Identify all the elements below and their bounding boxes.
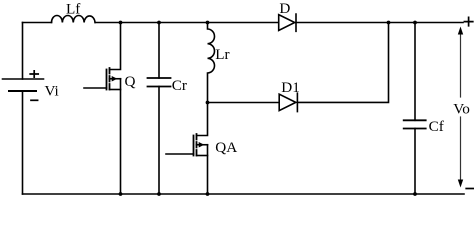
node bottom Cf <box>413 192 417 196</box>
node top C (Lr tap) <box>206 21 210 25</box>
battery minus sign <box>31 99 38 101</box>
output minus sign <box>466 188 473 190</box>
diode D <box>279 14 296 31</box>
node top B (Cr tap) <box>157 21 161 25</box>
transistor QA <box>166 103 208 195</box>
Vo arrow lower head <box>458 180 463 188</box>
wire top-left segment <box>23 22 52 24</box>
wire top middle (Lf to diode D) <box>95 22 278 24</box>
node top A (Q drain tap) <box>119 21 123 25</box>
inductor Lr <box>208 23 215 103</box>
svg-text:Vi: Vi <box>45 83 59 100</box>
Vo arrow upper head <box>458 27 463 35</box>
wire left (top wire down to battery) <box>22 23 24 80</box>
node top D1-return tap <box>387 21 391 25</box>
node bottom Q source <box>119 192 123 196</box>
wire top right (D to right end) <box>296 22 463 24</box>
Vo arrow upper shaft <box>460 33 462 97</box>
svg-text:Lr: Lr <box>215 46 229 63</box>
svg-text:Cf: Cf <box>429 118 445 135</box>
transistor Q <box>84 23 121 195</box>
wire D1 anode <box>208 102 280 104</box>
Vo arrow lower shaft <box>460 117 462 180</box>
wire bottom rail <box>23 193 465 195</box>
capacitor Cf <box>404 23 426 195</box>
wire D1 cathode to top rail <box>297 23 388 103</box>
node Lr-D1-QA junction <box>206 101 210 105</box>
battery plus sign <box>30 71 38 77</box>
output plus sign <box>464 17 472 25</box>
svg-text:Lf: Lf <box>66 0 81 17</box>
node top Cf tap <box>413 21 417 25</box>
svg-text:Cr: Cr <box>172 77 187 94</box>
svg-text:D1: D1 <box>281 79 300 96</box>
capacitor Cr <box>148 23 171 195</box>
diode D1 <box>279 93 297 111</box>
inductor Lf <box>52 16 96 23</box>
svg-text:Q: Q <box>125 73 136 90</box>
svg-text:D: D <box>279 0 290 17</box>
battery Vi <box>3 79 44 194</box>
svg-text:QA: QA <box>215 139 237 156</box>
svg-text:Vo: Vo <box>453 100 470 117</box>
node bottom Cr <box>157 192 161 196</box>
node bottom QA source <box>206 192 210 196</box>
